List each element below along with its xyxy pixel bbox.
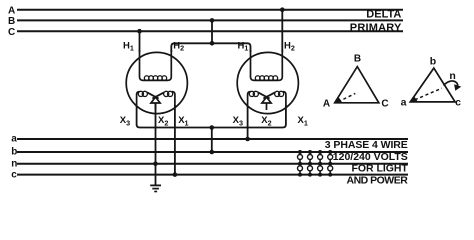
svg-text:3 PHASE 4 WIRE: 3 PHASE 4 WIRE	[325, 139, 408, 151]
svg-text:b: b	[11, 147, 17, 158]
svg-text:n: n	[11, 158, 17, 169]
svg-text:A: A	[323, 98, 330, 109]
svg-text:c: c	[455, 97, 461, 109]
svg-text:DELTA: DELTA	[366, 8, 401, 20]
svg-text:B: B	[8, 16, 15, 27]
svg-text:PRIMARY: PRIMARY	[350, 22, 402, 34]
svg-text:C: C	[381, 98, 388, 109]
svg-text:n: n	[449, 70, 455, 82]
svg-text:120/240 VOLTS: 120/240 VOLTS	[333, 151, 408, 163]
svg-text:A: A	[8, 5, 15, 16]
svg-text:AND POWER: AND POWER	[347, 174, 409, 186]
svg-text:c: c	[11, 169, 17, 180]
svg-text:B: B	[354, 54, 361, 65]
svg-text:a: a	[11, 134, 17, 145]
svg-text:a: a	[401, 96, 407, 108]
svg-text:C: C	[8, 27, 15, 38]
svg-text:FOR LIGHT: FOR LIGHT	[352, 162, 409, 174]
svg-text:b: b	[430, 56, 436, 68]
